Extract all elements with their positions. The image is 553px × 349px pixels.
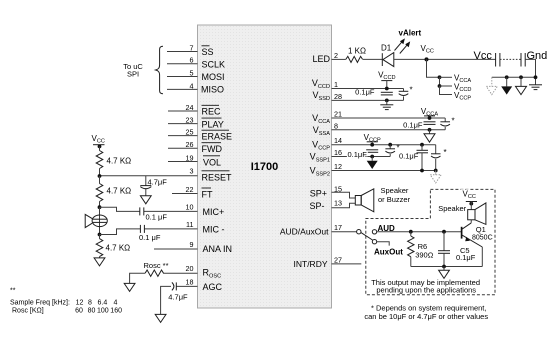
capacitor 0.1uF (MIC-) bbox=[139, 225, 161, 242]
ground (sketch style VSSP2) bbox=[430, 171, 441, 183]
pin 17 AUD/AuxOut wire bbox=[280, 223, 357, 236]
ground (sketch style) bbox=[486, 77, 497, 94]
switch SW1 (AUD/AuxOut select) bbox=[357, 230, 377, 244]
svg-text:Sample Freq [kHz]:: Sample Freq [kHz]: bbox=[10, 299, 70, 306]
capacitor polarized * (VCCD) bbox=[399, 86, 413, 101]
capacitor 0.1uF (VCCP-VSSP1) bbox=[348, 150, 379, 159]
capacitor C7 (Vcc-Gnd left) bbox=[474, 50, 500, 67]
capacitor polarized * (VCCP-VSSP1) bbox=[385, 143, 399, 157]
wire AUD to Q1 base bbox=[377, 231, 462, 233]
svg-text:8050C: 8050C bbox=[472, 234, 493, 241]
svg-text:12: 12 bbox=[334, 162, 342, 171]
svg-text:0.1μF: 0.1μF bbox=[403, 121, 423, 130]
svg-text:SCLK: SCLK bbox=[202, 60, 226, 70]
svg-text:21: 21 bbox=[334, 110, 342, 119]
svg-text:12: 12 bbox=[76, 299, 84, 306]
svg-text:25: 25 bbox=[186, 128, 194, 137]
capacitor 0.1uF (VCCP-VSSP2) bbox=[399, 143, 428, 173]
svg-text:Speaker: Speaker bbox=[438, 204, 466, 213]
resistor R2 4.7K (middle) bbox=[96, 176, 131, 207]
svg-text:4.7μF: 4.7μF bbox=[148, 178, 168, 187]
ground (solid triangle VSSP1) bbox=[367, 157, 378, 170]
footnote asterisk text bbox=[364, 304, 488, 321]
capacitor C5 0.1uF bbox=[438, 232, 476, 267]
svg-text:or Buzzer: or Buzzer bbox=[378, 195, 411, 204]
capacitor 0.1uF (MIC+) bbox=[140, 207, 168, 221]
svg-text:160: 160 bbox=[110, 308, 122, 315]
svg-text:26: 26 bbox=[186, 140, 194, 149]
svg-text:10: 10 bbox=[186, 203, 194, 212]
svg-text:can be 10μF or 4.7μF or other: can be 10μF or 4.7μF or other values bbox=[364, 312, 488, 321]
svg-text:Rosc [KΩ]: Rosc [KΩ] bbox=[12, 308, 44, 315]
capacitor C8 (Vcc-Gnd right) bbox=[521, 50, 547, 67]
resistor R6 390ohm bbox=[408, 232, 434, 267]
svg-text:ANA IN: ANA IN bbox=[203, 244, 233, 254]
svg-text:FWD: FWD bbox=[202, 144, 223, 154]
wire Gnd down bbox=[525, 59, 535, 84]
ground (open triangle VSSA) bbox=[424, 130, 435, 142]
speaker symbol (collector load) bbox=[438, 203, 486, 225]
capacitor 0.1uF (VCCA) bbox=[403, 121, 435, 132]
svg-text:8: 8 bbox=[334, 121, 338, 130]
svg-text:SPI: SPI bbox=[127, 70, 139, 79]
svg-text:1: 1 bbox=[334, 80, 338, 89]
svg-text:6.4: 6.4 bbox=[98, 299, 108, 306]
svg-text:4: 4 bbox=[190, 81, 194, 90]
svg-text:AUD/AuxOut: AUD/AuxOut bbox=[280, 227, 329, 237]
junction C5 tap bbox=[442, 230, 446, 234]
svg-text:18: 18 bbox=[186, 277, 194, 286]
svg-text:24: 24 bbox=[186, 103, 194, 112]
pin 23 PLAY wire bbox=[168, 116, 224, 130]
pin 8 VSSA wire bbox=[313, 121, 445, 137]
pin 22 FT wire bbox=[172, 185, 213, 200]
brace To uC SPI bbox=[123, 46, 163, 94]
svg-text:1 KΩ: 1 KΩ bbox=[348, 47, 366, 56]
svg-text:0.1μF: 0.1μF bbox=[348, 150, 368, 159]
pin 3 RESET wire bbox=[100, 167, 233, 183]
svg-text:MIC+: MIC+ bbox=[203, 207, 225, 217]
svg-text:0.1 μF: 0.1 μF bbox=[146, 212, 168, 221]
svg-text:*: * bbox=[452, 117, 455, 126]
capacitor 4.7uF (AGC) bbox=[161, 282, 188, 314]
svg-text:SP+: SP+ bbox=[310, 188, 327, 198]
svg-text:LED: LED bbox=[312, 54, 330, 64]
svg-text:22: 22 bbox=[186, 185, 194, 194]
wire VCC ladder bbox=[427, 59, 453, 94]
pin 18 AGC wire bbox=[176, 277, 222, 291]
svg-text:8: 8 bbox=[88, 299, 92, 306]
transistor Q1 8050C bbox=[462, 223, 493, 267]
svg-text:0.1 μF: 0.1 μF bbox=[139, 233, 161, 242]
ground (open triangle C5) bbox=[439, 267, 450, 279]
junction node mic bottom bbox=[98, 233, 102, 237]
svg-text:0.1μF: 0.1μF bbox=[355, 88, 375, 97]
svg-text:*: * bbox=[410, 86, 413, 95]
svg-text:Speaker: Speaker bbox=[381, 186, 409, 195]
svg-text:13: 13 bbox=[334, 198, 342, 207]
svg-text:pending upon the applications: pending upon the applications bbox=[376, 286, 476, 295]
svg-text:VOL: VOL bbox=[203, 157, 221, 167]
pin 27 INT/RDY wire bbox=[294, 255, 362, 269]
svg-text:MIC -: MIC - bbox=[203, 225, 225, 235]
pin 26 FWD wire bbox=[168, 140, 222, 154]
svg-text:14: 14 bbox=[334, 136, 342, 145]
LED D1 bbox=[381, 44, 496, 67]
wire ground rail bbox=[492, 76, 536, 78]
resistor R1 4.7K (upper) bbox=[96, 151, 131, 177]
svg-text:6: 6 bbox=[190, 56, 194, 65]
ground (AGC cap) bbox=[155, 314, 166, 322]
svg-text:MOSI: MOSI bbox=[202, 72, 225, 82]
svg-text:2: 2 bbox=[334, 51, 338, 60]
svg-text:11: 11 bbox=[186, 220, 193, 229]
svg-text:0.1μF: 0.1μF bbox=[399, 151, 419, 160]
ground (RESET cap) bbox=[140, 196, 151, 204]
node VCC (speaker in box) bbox=[463, 190, 478, 210]
svg-text:I1700: I1700 bbox=[251, 161, 279, 173]
node VCCA tap bbox=[421, 107, 438, 120]
svg-text:60: 60 bbox=[75, 308, 83, 315]
svg-text:*: * bbox=[444, 148, 447, 157]
pin 21 VCCA wire bbox=[312, 110, 445, 126]
ground (solid triangle) bbox=[501, 75, 512, 94]
junction node mic top bbox=[98, 205, 102, 209]
svg-text:7: 7 bbox=[190, 44, 194, 53]
ground (mic bias) bbox=[94, 258, 105, 266]
wire dotted between caps bbox=[500, 58, 521, 60]
node AuxOut bbox=[374, 242, 403, 257]
pin 15 SP+ wire bbox=[310, 184, 356, 198]
ground (Rosc) bbox=[124, 283, 135, 291]
pin 28 VSSD wire bbox=[312, 90, 403, 102]
svg-text:390Ω: 390Ω bbox=[415, 251, 434, 260]
svg-text:17: 17 bbox=[334, 223, 342, 232]
svg-text:Gnd: Gnd bbox=[527, 50, 548, 62]
pin 7 SS wire bbox=[167, 44, 214, 58]
svg-text:23: 23 bbox=[186, 116, 194, 125]
svg-text:SS: SS bbox=[202, 47, 214, 57]
svg-text:4: 4 bbox=[114, 299, 118, 306]
svg-text:100: 100 bbox=[97, 308, 109, 315]
legend sample-freq table bbox=[10, 288, 122, 315]
svg-text:RESET: RESET bbox=[202, 172, 233, 182]
dashed box optional output bbox=[366, 189, 495, 294]
svg-text:INT/RDY: INT/RDY bbox=[294, 259, 328, 269]
pin 20 Rosc wire bbox=[163, 264, 221, 280]
pin 11 MIC - wire bbox=[144, 220, 224, 235]
pin 19 VOL wire bbox=[168, 154, 221, 168]
junction node (R1/R2/RESET) bbox=[98, 174, 102, 178]
pin 2 LED wire bbox=[312, 51, 345, 64]
svg-text:20: 20 bbox=[186, 264, 194, 273]
svg-text:0.1μF: 0.1μF bbox=[456, 253, 476, 262]
svg-text:vAlert: vAlert bbox=[399, 29, 422, 38]
pin 16 VSSP1 wire bbox=[310, 148, 391, 164]
vAlert label and arrows bbox=[395, 29, 422, 54]
svg-text:16: 16 bbox=[334, 148, 342, 157]
capacitor 0.1uF (VCCD) bbox=[355, 88, 393, 103]
ground (open triangle) bbox=[516, 75, 527, 94]
pin 6 SCLK wire bbox=[167, 56, 225, 70]
svg-text:FT: FT bbox=[202, 190, 213, 200]
svg-text:4.7 KΩ: 4.7 KΩ bbox=[107, 157, 132, 166]
svg-text:4.7 KΩ: 4.7 KΩ bbox=[106, 243, 131, 252]
svg-text:PLAY: PLAY bbox=[202, 119, 224, 129]
node VCC (LED junction) bbox=[421, 44, 434, 61]
resistor R4 1K bbox=[346, 47, 383, 63]
pin 24 REC wire bbox=[168, 103, 221, 117]
svg-text:ERASE: ERASE bbox=[202, 132, 233, 142]
svg-text:28: 28 bbox=[334, 92, 342, 101]
svg-text:27: 27 bbox=[334, 255, 342, 264]
svg-text:SP-: SP- bbox=[309, 201, 324, 211]
svg-text:4.7 KΩ: 4.7 KΩ bbox=[107, 187, 132, 196]
pin 4 MISO wire bbox=[167, 81, 224, 94]
resistor Rosc bbox=[130, 261, 169, 283]
svg-text:3: 3 bbox=[190, 167, 194, 176]
svg-text:5: 5 bbox=[190, 69, 194, 78]
svg-text:**: ** bbox=[10, 288, 16, 295]
microphone MK1 bbox=[85, 207, 107, 234]
svg-text:MISO: MISO bbox=[201, 85, 224, 95]
svg-text:9: 9 bbox=[190, 240, 194, 249]
svg-text:19: 19 bbox=[186, 154, 194, 163]
svg-text:Vcc: Vcc bbox=[474, 50, 493, 62]
svg-text:REC: REC bbox=[202, 107, 222, 117]
ground (earth bars) bbox=[529, 75, 542, 89]
capacitor 4.7uF on RESET line bbox=[140, 176, 167, 196]
node Vcc (top-left supply) bbox=[92, 134, 105, 151]
pin 10 MIC+ wire bbox=[144, 203, 224, 218]
node VCCP tap bbox=[364, 133, 381, 147]
node VCCD tap bbox=[378, 71, 395, 91]
resistor R3 4.7K (lower) bbox=[96, 235, 130, 258]
svg-text:15: 15 bbox=[334, 184, 342, 193]
svg-text:AuxOut: AuxOut bbox=[374, 248, 403, 257]
pin 9 ANA IN wire bbox=[154, 240, 232, 254]
capacitor polarized * (VCCA) bbox=[440, 117, 454, 130]
pin 14 VCCP wire bbox=[312, 136, 436, 152]
pin 5 MOSI wire bbox=[167, 69, 225, 83]
speaker or buzzer symbol bbox=[355, 186, 410, 212]
note text in dashed box bbox=[371, 278, 480, 294]
svg-text:D1: D1 bbox=[381, 44, 392, 53]
svg-text:Rosc **: Rosc ** bbox=[144, 261, 169, 270]
wire emitter rail bbox=[411, 265, 483, 269]
pin 13 SP- wire bbox=[309, 198, 355, 211]
op-amp U1 chip body I1700 bbox=[198, 25, 332, 308]
svg-text:Q1: Q1 bbox=[476, 225, 486, 234]
svg-text:80: 80 bbox=[88, 308, 96, 315]
pin 12 VSSP2 wire bbox=[310, 162, 436, 178]
pin 1 VCCD wire bbox=[312, 78, 404, 90]
ground (earth bars VSSD) bbox=[380, 100, 393, 109]
svg-text:AGC: AGC bbox=[203, 282, 223, 292]
pin 25 ERASE wire bbox=[168, 128, 232, 142]
svg-text:4.7μF: 4.7μF bbox=[168, 292, 188, 301]
wire mic bottom to MIC- cap bbox=[100, 229, 141, 235]
junction R6 tap bbox=[409, 230, 413, 234]
wire mic top to MIC+ cap bbox=[100, 207, 140, 211]
capacitor polarized * (VCCP-VSSP2) bbox=[431, 145, 447, 173]
